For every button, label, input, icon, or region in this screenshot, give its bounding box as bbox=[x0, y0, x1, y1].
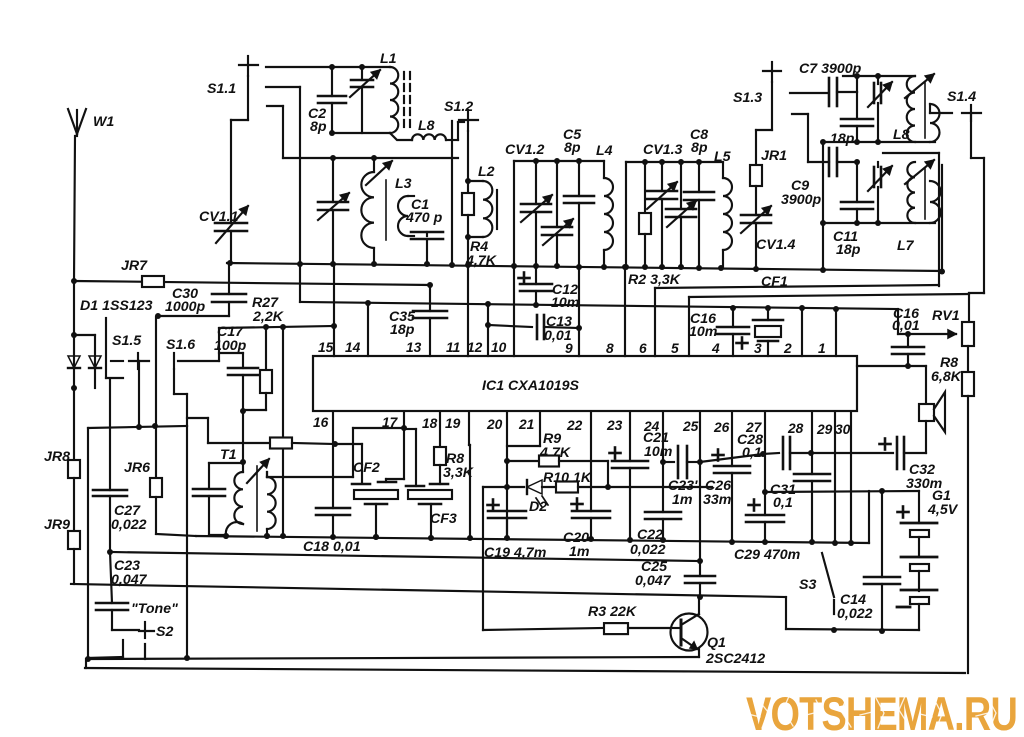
svg-text:L4: L4 bbox=[596, 143, 613, 159]
wire pin19 bbox=[469, 412, 470, 538]
wire L1 tank bottom bbox=[329, 130, 412, 140]
wire AGC line bbox=[300, 300, 898, 312]
capacitor C5 8p bbox=[563, 127, 594, 267]
resistor R4 4,7K bbox=[462, 181, 498, 269]
wire bottom bus bbox=[85, 659, 965, 673]
switch S2 bbox=[88, 622, 173, 659]
svg-text:20: 20 bbox=[486, 417, 503, 432]
svg-text:0,1: 0,1 bbox=[742, 445, 762, 461]
wire IF tank A top bbox=[843, 73, 915, 79]
wire pin25 bbox=[697, 412, 703, 564]
wire bus riser to V+ bbox=[868, 491, 870, 543]
svg-text:8: 8 bbox=[606, 341, 614, 356]
svg-text:10m: 10m bbox=[551, 295, 580, 311]
svg-text:S2: S2 bbox=[156, 624, 173, 640]
svg-text:D1 1SS123: D1 1SS123 bbox=[80, 298, 153, 314]
wire pin5 line bbox=[689, 294, 969, 356]
variable capacitor CV1.2 bbox=[505, 142, 552, 266]
svg-text:0,1: 0,1 bbox=[773, 495, 793, 511]
capacitor C29 470m bbox=[734, 492, 801, 563]
capacitor C1 470p bbox=[405, 197, 443, 264]
capacitor C9 3900p bbox=[781, 148, 860, 208]
wire antenna bus bbox=[71, 278, 433, 288]
svg-text:10m: 10m bbox=[689, 324, 718, 340]
svg-text:S1.1: S1.1 bbox=[207, 81, 236, 97]
svg-text:R3 22K: R3 22K bbox=[588, 604, 638, 620]
wire pin14 AGC column bbox=[280, 327, 286, 539]
capacitor C23 0,047 label bbox=[111, 558, 148, 588]
wire RV1 top bbox=[0, 0, 1, 1]
pin numbers bottom row bbox=[313, 415, 851, 437]
svg-text:2,2K: 2,2K bbox=[252, 309, 285, 325]
svg-text:S1.6: S1.6 bbox=[166, 337, 195, 353]
svg-text:10m: 10m bbox=[644, 444, 673, 460]
wire pin15 bbox=[331, 264, 337, 356]
resistor R10 1K bbox=[543, 470, 712, 493]
wire IF tanks left leg bbox=[820, 142, 826, 270]
wire pin27 bbox=[762, 412, 768, 495]
wire pin16 bbox=[332, 412, 334, 508]
svg-text:21: 21 bbox=[518, 417, 534, 432]
capacitor C32 330m bbox=[811, 421, 943, 492]
svg-text:L7: L7 bbox=[897, 238, 915, 254]
svg-text:4,5V: 4,5V bbox=[927, 502, 959, 518]
svg-text:IC1 CXA1019S: IC1 CXA1019S bbox=[482, 378, 580, 394]
svg-text:C18 0,01: C18 0,01 bbox=[303, 539, 361, 555]
wire pins 29,30 bbox=[832, 412, 854, 546]
svg-text:S3: S3 bbox=[799, 577, 816, 593]
diode D1 1SS123 bbox=[68, 281, 153, 391]
capacitor C31 0,1 bbox=[770, 412, 830, 545]
svg-text:CV1.4: CV1.4 bbox=[756, 237, 796, 253]
svg-text:29: 29 bbox=[816, 422, 833, 437]
inductor L2 bbox=[468, 164, 497, 237]
wire RF tank top bbox=[329, 64, 390, 70]
switch S1.3 bbox=[733, 62, 781, 165]
resistor JR8 bbox=[44, 449, 80, 531]
watermark bbox=[746, 687, 1017, 737]
wire pin12 bbox=[485, 304, 491, 356]
svg-text:18p: 18p bbox=[830, 131, 855, 147]
switch S1.6 bbox=[166, 337, 219, 426]
variable capacitor CV1.1 bbox=[199, 206, 248, 263]
potentiometer RV1 bbox=[898, 308, 974, 346]
wire speaker feed bbox=[857, 365, 926, 367]
variable capacitor CV1.3 bbox=[643, 142, 683, 267]
wire band-switch link line bbox=[88, 423, 187, 659]
svg-text:1m: 1m bbox=[569, 544, 590, 560]
capacitor C14 0,022 bbox=[837, 491, 900, 631]
svg-text:0,022: 0,022 bbox=[630, 542, 666, 558]
capacitor C23 1m bbox=[663, 446, 703, 508]
inductor L4 bbox=[596, 143, 613, 267]
wire pin6 / CF1 line bbox=[655, 274, 939, 356]
pin numbers top row bbox=[318, 340, 826, 356]
svg-text:S1.3: S1.3 bbox=[733, 90, 762, 106]
wire R9 to R10 node bbox=[605, 461, 611, 490]
wire S1.4 lower column bbox=[939, 165, 945, 275]
wire pin10 bbox=[513, 266, 515, 356]
svg-text:1: 1 bbox=[818, 341, 826, 356]
wire AM tank top line bbox=[283, 155, 458, 161]
svg-text:5: 5 bbox=[671, 341, 679, 356]
svg-text:"Tone": "Tone" bbox=[131, 601, 178, 617]
inductor L7 bbox=[897, 160, 934, 254]
resistor JR1 bbox=[750, 148, 787, 215]
svg-text:33m: 33m bbox=[703, 492, 732, 508]
capacitor C22 0,022 bbox=[630, 412, 681, 558]
resistor R8 6,8K bbox=[931, 346, 974, 673]
wire V+ rail bbox=[765, 488, 919, 494]
svg-text:CV1.2: CV1.2 bbox=[505, 142, 545, 158]
wire C19 tap column bbox=[0, 0, 1, 1]
capacitor C21 10m bbox=[610, 412, 673, 543]
svg-text:W1: W1 bbox=[93, 114, 114, 130]
capacitor C26 33m bbox=[703, 412, 750, 545]
speaker bbox=[919, 366, 945, 432]
svg-text:RV1: RV1 bbox=[932, 308, 960, 324]
coil winding (L3 secondary) bbox=[398, 196, 414, 236]
trimmer capacitor (tank B) bbox=[868, 162, 892, 223]
wire RF/AM common bus bbox=[227, 260, 942, 273]
wire between IF tanks bbox=[883, 153, 939, 286]
wire L8 to S1.2 bbox=[446, 122, 464, 140]
wire left column to volume line bbox=[0, 0, 1, 1]
wire AF line bbox=[700, 451, 766, 462]
capacitor C35 18p bbox=[389, 285, 447, 356]
svg-text:T1: T1 bbox=[220, 447, 237, 463]
switch S3 bbox=[799, 553, 834, 614]
capacitor C19 4,7m bbox=[483, 487, 547, 630]
svg-text:CF3: CF3 bbox=[430, 511, 457, 527]
svg-text:10: 10 bbox=[491, 340, 507, 355]
svg-text:1000p: 1000p bbox=[165, 299, 206, 315]
svg-text:100p: 100p bbox=[214, 338, 247, 354]
capacitor C7 3900p bbox=[799, 61, 862, 106]
transistor Q1 2SC2412 bbox=[671, 597, 766, 667]
svg-text:30: 30 bbox=[835, 422, 851, 437]
wire right edge column bbox=[0, 0, 1, 1]
svg-text:3900p: 3900p bbox=[781, 192, 822, 208]
wire pin8 bbox=[622, 264, 628, 356]
wire R27/C17 top line bbox=[219, 324, 335, 361]
op-amp U1 IC1 CXA1019S bbox=[313, 356, 857, 411]
resistor (T1 bias) bbox=[187, 418, 338, 449]
resistor JR9 bbox=[44, 517, 80, 584]
svg-text:S1.4: S1.4 bbox=[947, 89, 976, 105]
capacitor C2 8p bbox=[308, 67, 346, 135]
ceramic filter CF3 bbox=[404, 429, 457, 541]
resistor R9 4,7K bbox=[507, 431, 608, 467]
variable capacitor CV (AM tank) bbox=[318, 158, 349, 264]
svg-text:6: 6 bbox=[639, 341, 647, 356]
wire CV1.2 tank top bbox=[514, 158, 604, 164]
trimmer capacitor (CV1.2 tank) bbox=[542, 161, 573, 266]
svg-text:19: 19 bbox=[445, 416, 461, 431]
ceramic filter CF2 bbox=[352, 460, 404, 540]
resistor R2 3,3K bbox=[628, 162, 682, 288]
wire S1.2 pole down bbox=[465, 131, 471, 184]
svg-text:18p: 18p bbox=[390, 322, 415, 338]
capacitor C18 0,01 bbox=[303, 508, 361, 555]
svg-text:2: 2 bbox=[783, 341, 792, 356]
wire S3/C14/battery bottom line bbox=[786, 627, 919, 634]
capacitor C16 10m bbox=[689, 308, 749, 356]
svg-text:C7 3900p: C7 3900p bbox=[799, 61, 862, 77]
wire emitter bus bbox=[85, 656, 699, 662]
svg-text:22: 22 bbox=[566, 418, 583, 433]
svg-text:470 p: 470 p bbox=[405, 210, 443, 226]
capacitor C11 18p bbox=[833, 162, 873, 258]
wire S1.3 throw B bbox=[792, 114, 808, 162]
svg-text:JR7: JR7 bbox=[121, 258, 148, 274]
svg-text:15: 15 bbox=[318, 340, 334, 355]
wire IF tank A bottom bbox=[820, 139, 935, 145]
wire pin9 bbox=[578, 267, 580, 356]
wire S1.1-B column bbox=[299, 87, 301, 302]
svg-text:R2 3,3K: R2 3,3K bbox=[628, 272, 682, 288]
svg-text:0,047: 0,047 bbox=[635, 573, 672, 589]
switch S1.1 bbox=[207, 56, 258, 222]
ceramic resonator (pin 3) bbox=[753, 308, 783, 356]
wire S3 feed bbox=[785, 597, 787, 629]
wire pin14 bbox=[367, 303, 369, 356]
trimmer capacitor (tank A) bbox=[868, 76, 892, 142]
capacitor C8 8p bbox=[684, 127, 714, 268]
wire main bottom bus (C18 line) bbox=[196, 533, 869, 543]
inductor L1 bbox=[380, 51, 410, 133]
wire pin2 bbox=[801, 308, 803, 356]
svg-text:S1.5: S1.5 bbox=[112, 333, 142, 349]
svg-text:8p: 8p bbox=[564, 140, 581, 156]
wire left column bbox=[73, 388, 75, 460]
svg-text:25: 25 bbox=[682, 419, 699, 434]
inductor L5 bbox=[714, 149, 732, 268]
svg-text:Q1: Q1 bbox=[707, 635, 726, 651]
wire T1 secondary to pin 17 bbox=[193, 411, 276, 539]
svg-text:17: 17 bbox=[382, 415, 399, 430]
capacitor C12 10m bbox=[519, 266, 580, 311]
svg-text:JR9: JR9 bbox=[44, 517, 70, 533]
wire IF tank B bottom bbox=[823, 220, 935, 226]
switch S1.4 bbox=[930, 89, 981, 121]
svg-text:0,022: 0,022 bbox=[111, 517, 147, 533]
wire tone line (bus B) bbox=[110, 552, 700, 561]
svg-text:16: 16 bbox=[313, 415, 329, 430]
svg-text:2SC2412: 2SC2412 bbox=[705, 651, 765, 667]
svg-text:L2: L2 bbox=[478, 164, 495, 180]
wire S1.1 throw lines bbox=[266, 67, 332, 158]
resistor R27 2,2K bbox=[243, 295, 285, 410]
svg-text:L3: L3 bbox=[395, 176, 412, 192]
svg-text:11: 11 bbox=[446, 340, 460, 355]
svg-text:18: 18 bbox=[422, 416, 438, 431]
wire antenna lead down bbox=[74, 136, 75, 281]
capacitor C13 0,01 bbox=[488, 314, 582, 344]
wire S1.3 throw A bbox=[790, 92, 827, 94]
wire pin17 bbox=[401, 412, 407, 479]
resistor JR6 bbox=[124, 317, 196, 536]
svg-text:8p: 8p bbox=[691, 140, 708, 156]
wire AGC to RV1 bbox=[897, 309, 899, 334]
inductor L8 bbox=[412, 118, 446, 140]
capacitor 18p (tank A) bbox=[830, 92, 873, 147]
switch S1.2 bbox=[444, 99, 478, 265]
capacitor C30 1000p bbox=[155, 263, 246, 319]
antenna W1 bbox=[68, 109, 114, 136]
svg-text:14: 14 bbox=[345, 340, 361, 355]
resistor R3 22K bbox=[483, 604, 673, 634]
capacitor C16 0,01 bbox=[892, 306, 924, 369]
svg-text:VOTSHEMA.RU: VOTSHEMA.RU bbox=[746, 687, 1017, 737]
wire pin20/21 bbox=[504, 412, 540, 538]
resistor JR7 bbox=[121, 258, 164, 287]
svg-text:26: 26 bbox=[713, 420, 730, 435]
svg-text:L8: L8 bbox=[418, 118, 435, 134]
coupling winding (tank B) bbox=[930, 181, 941, 223]
svg-text:CF2: CF2 bbox=[353, 460, 380, 476]
trimmer capacitor (CV1.3 tank) bbox=[666, 162, 696, 267]
wire CV1.2 tank left leg bbox=[513, 161, 515, 266]
svg-text:28: 28 bbox=[787, 421, 804, 436]
svg-text:0,01: 0,01 bbox=[544, 328, 572, 344]
inductor L8 (IF tank A) bbox=[893, 74, 934, 143]
coupling winding (tank A) bbox=[930, 104, 940, 142]
capacitor Tone bbox=[96, 552, 178, 630]
svg-text:1m: 1m bbox=[672, 492, 693, 508]
svg-text:23: 23 bbox=[606, 418, 623, 433]
diode D2 bbox=[507, 480, 556, 515]
capacitor C20 1m bbox=[563, 412, 610, 560]
wire S1.4 pole bbox=[969, 113, 984, 322]
svg-text:C29 470m: C29 470m bbox=[734, 547, 801, 563]
svg-text:JR8: JR8 bbox=[44, 449, 70, 465]
resistor R8 3,3K bbox=[434, 412, 475, 484]
wire CF2 input lead bbox=[335, 444, 362, 482]
trimmer capacitor (L1 tank) bbox=[350, 67, 380, 133]
capacitor C25 0,047 bbox=[635, 559, 715, 597]
svg-text:12: 12 bbox=[467, 340, 483, 355]
svg-text:8p: 8p bbox=[310, 119, 327, 135]
svg-text:3: 3 bbox=[754, 341, 762, 356]
svg-text:L1: L1 bbox=[380, 51, 397, 67]
svg-text:6,8K: 6,8K bbox=[931, 369, 963, 385]
capacitor C28 0,1 bbox=[737, 432, 814, 469]
battery G1 4,5V bbox=[897, 488, 959, 630]
wire pin11 bbox=[467, 266, 469, 356]
wire CV1.3 tank left leg bbox=[625, 162, 627, 267]
capacitor C27 0,022 bbox=[93, 380, 147, 555]
wire pin1 bbox=[835, 309, 837, 356]
inductor L3 bbox=[361, 158, 411, 264]
svg-text:0,01: 0,01 bbox=[892, 318, 920, 334]
svg-text:4: 4 bbox=[711, 341, 720, 356]
svg-text:18p: 18p bbox=[836, 242, 861, 258]
svg-text:CV1.3: CV1.3 bbox=[643, 142, 683, 158]
wire volume line bbox=[71, 584, 786, 600]
capacitor C17 100p bbox=[214, 324, 258, 414]
svg-text:0,022: 0,022 bbox=[837, 606, 873, 622]
variable capacitor CV1.4 bbox=[741, 206, 796, 269]
svg-text:13: 13 bbox=[406, 340, 422, 355]
switch S1.5 bbox=[106, 318, 149, 427]
svg-text:JR6: JR6 bbox=[124, 460, 150, 476]
wire S1.6 column down bbox=[184, 426, 190, 661]
wire CV1.3 tank top bbox=[626, 159, 723, 165]
svg-text:JR1: JR1 bbox=[761, 148, 787, 164]
